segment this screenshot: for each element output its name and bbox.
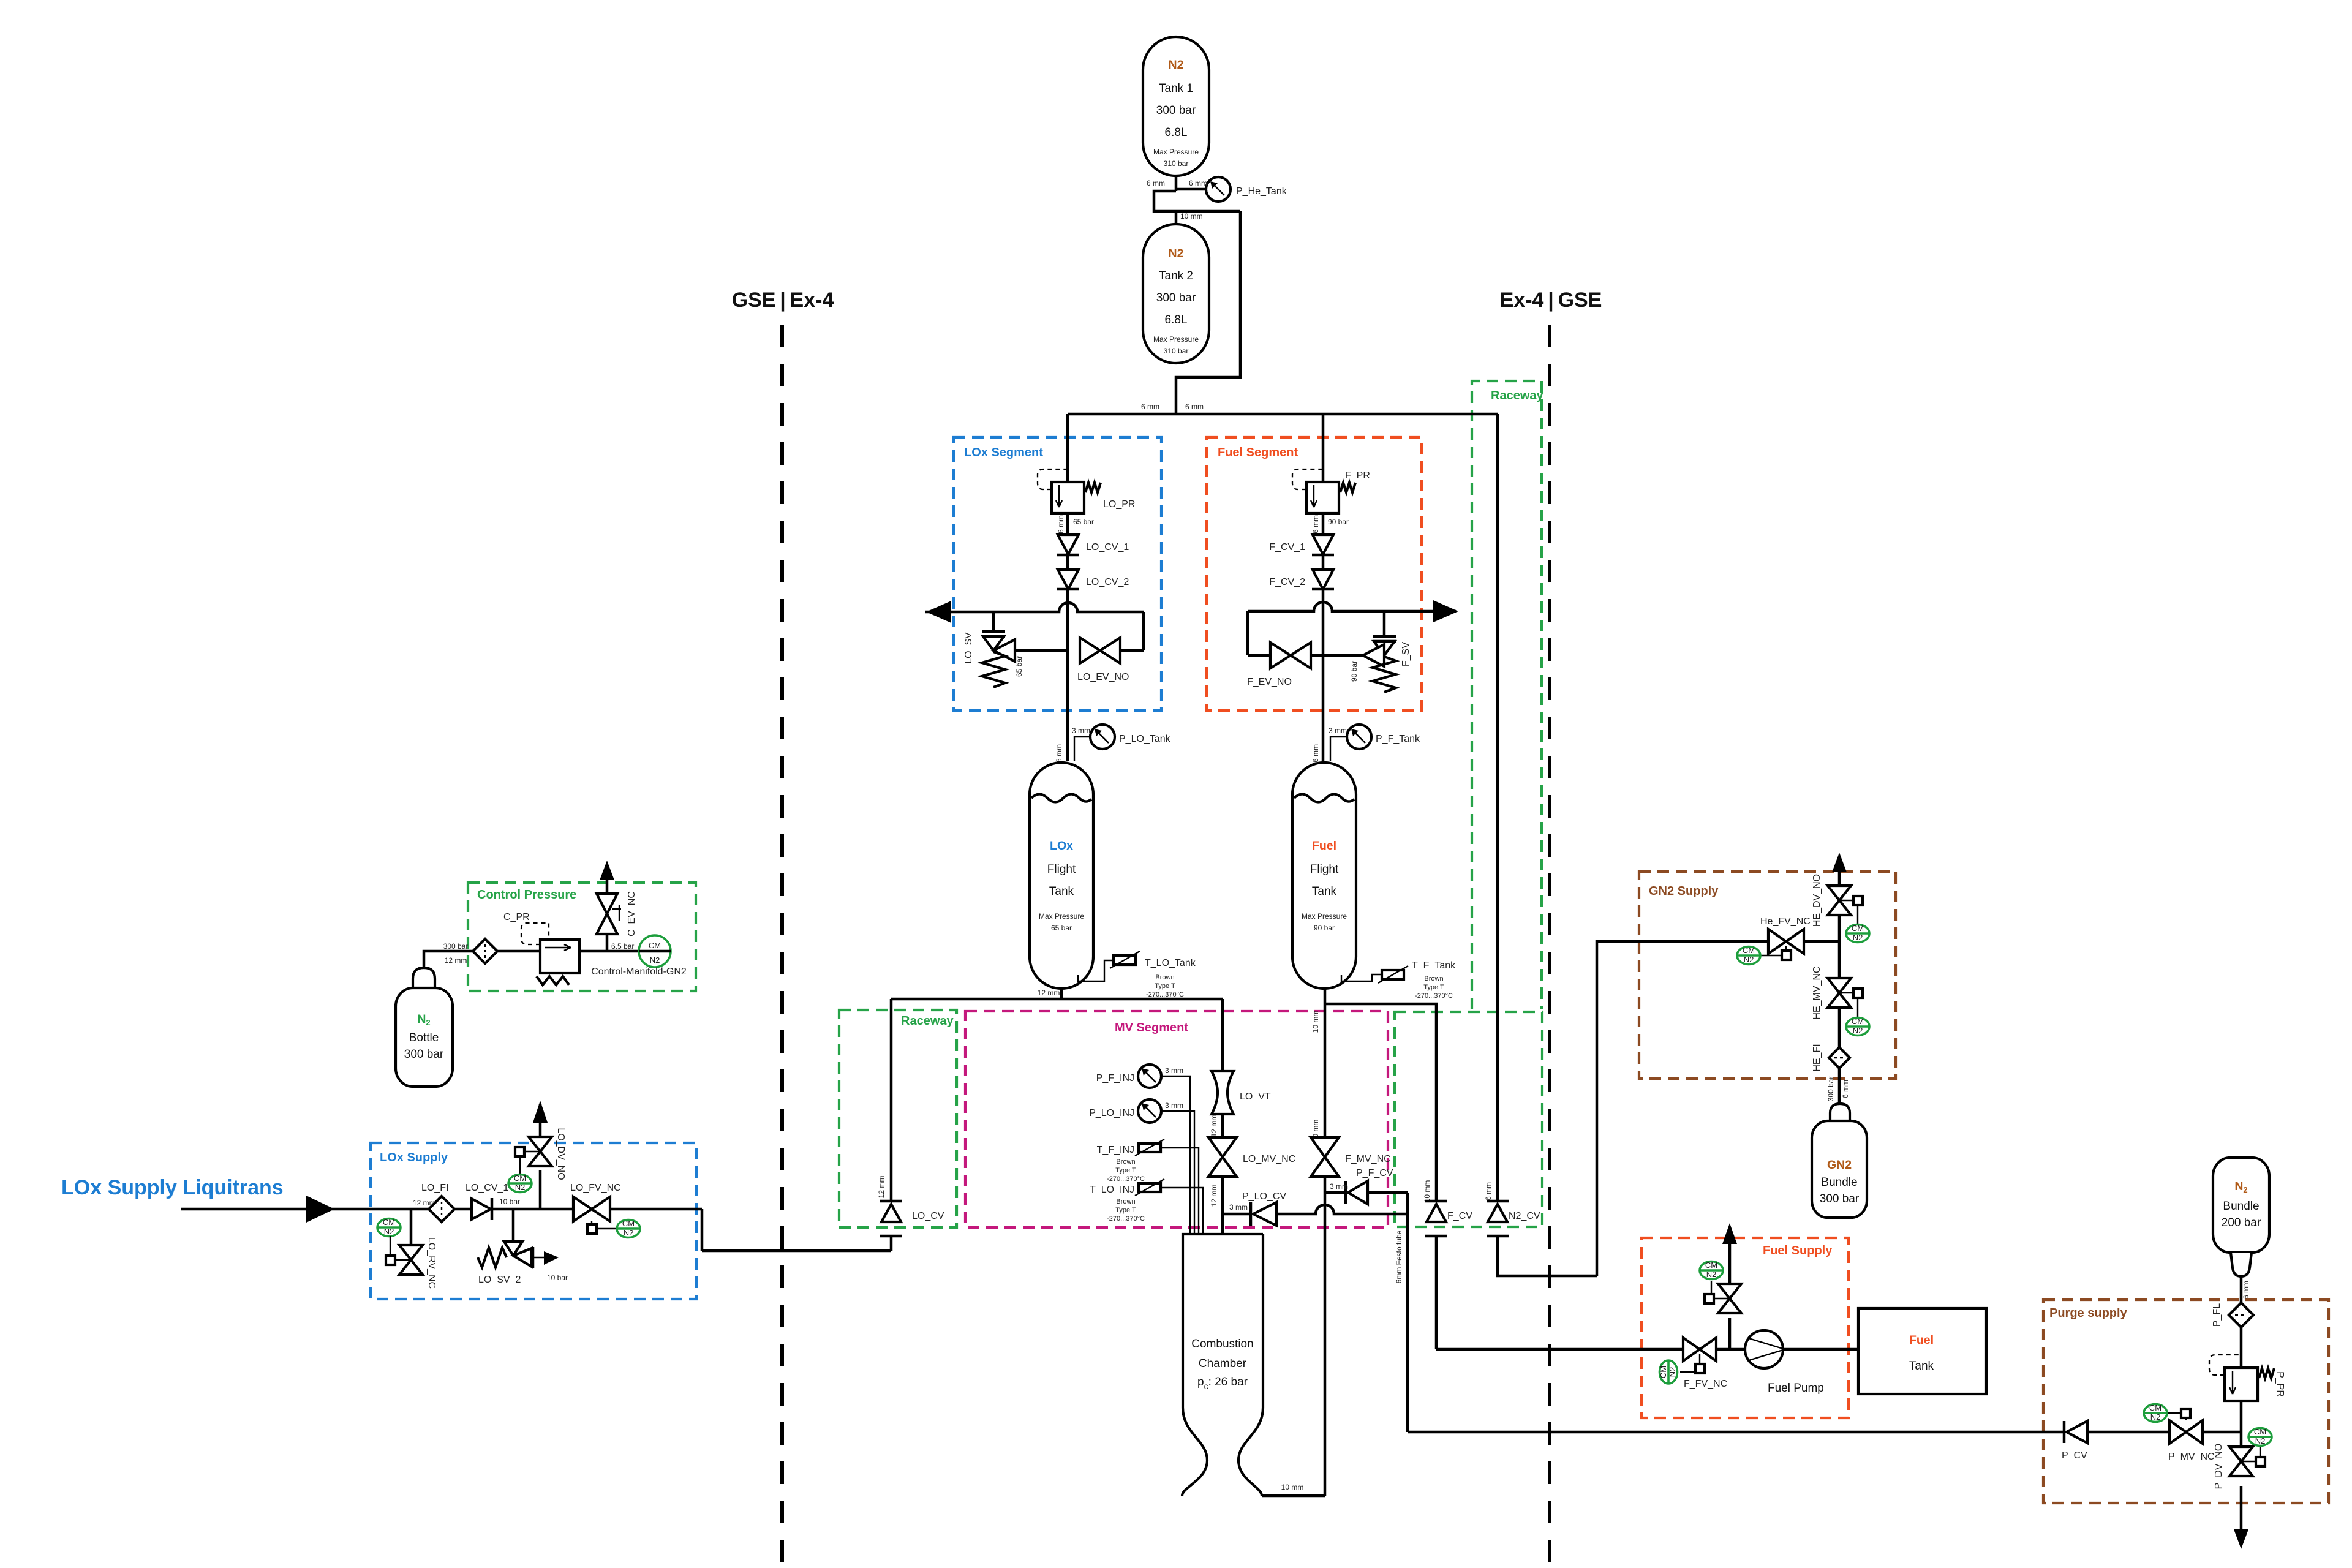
svg-text:T_F_Tank: T_F_Tank [1412,960,1456,971]
valve He_FV_NC [1760,916,1811,960]
svg-text:3 mm: 3 mm [1072,726,1090,735]
svg-text:LO_FV_NC: LO_FV_NC [570,1183,621,1193]
check valve F_CV [1425,1201,1472,1236]
svg-text:310 bar: 310 bar [1164,347,1189,355]
svg-text:Type T: Type T [1115,1207,1136,1214]
svg-text:P_FL: P_FL [2212,1303,2222,1327]
svg-text:Bottle: Bottle [409,1031,439,1044]
svg-text:Tank 1: Tank 1 [1159,82,1193,95]
wire: LO_MV_NC to chamber [1221,1177,1224,1234]
svg-text:N2: N2 [1668,1367,1677,1378]
svg-text:He_FV_NC: He_FV_NC [1760,916,1811,927]
instrument CM/N2 at P_MV_NC [2144,1403,2167,1422]
box Fuel Tank [1858,1308,1986,1394]
svg-text:Ex-4 | GSE: Ex-4 | GSE [1500,288,1602,312]
vent arrow LOx left [926,601,951,623]
svg-text:LO_CV_2: LO_CV_2 [1086,577,1129,587]
svg-text:N2: N2 [1169,247,1184,260]
svg-text:Brown: Brown [1116,1198,1135,1205]
svg-text:-270...370°C: -270...370°C [1415,992,1453,1000]
svg-text:65 bar: 65 bar [1015,656,1023,677]
relief valve LO_SV_2 [478,1209,568,1285]
svg-text:Tank: Tank [1049,885,1074,898]
svg-text:LO_CV_1: LO_CV_1 [466,1183,508,1193]
tank N2 Tank 1 [1143,37,1209,176]
svg-text:Flight: Flight [1310,863,1339,876]
valve He_DV_NO [1812,874,1863,927]
svg-text:N2: N2 [384,1227,394,1236]
svg-text:Max Pressure: Max Pressure [1153,335,1199,344]
svg-text:LOx Segment: LOx Segment [964,446,1043,459]
svg-text:6 mm: 6 mm [2242,1281,2250,1299]
svg-text:P_F_INJ: P_F_INJ [1096,1073,1134,1084]
svg-text:Tank: Tank [1909,1360,1934,1373]
svg-text:Fuel: Fuel [1312,839,1336,853]
svg-text:10 mm: 10 mm [1180,212,1203,221]
wire: He vertical line [1826,870,1850,1104]
instrument CM/N2 control manifold [591,935,687,977]
tank N2 Bundle 200 bar [2213,1158,2269,1276]
valve LO_RV_NC [386,1199,437,1289]
vent arrow P_DV_NO down [2234,1529,2248,1549]
svg-text:90 bar: 90 bar [1350,661,1359,682]
svg-text:10 mm: 10 mm [1423,1180,1431,1203]
svg-text:10 mm: 10 mm [1281,1483,1304,1491]
svg-text:3 mm: 3 mm [1165,1101,1183,1110]
tank Fuel Flight Tank [1292,763,1356,989]
svg-text:LO_MV_NC: LO_MV_NC [1243,1154,1295,1164]
svg-text:CM: CM [1705,1261,1717,1270]
svg-text:-270...370°C: -270...370°C [1107,1175,1145,1183]
svg-text:GN2 Supply: GN2 Supply [1649,884,1719,898]
svg-text:Fuel: Fuel [1909,1333,1934,1347]
wire: LO_VT to LO_MV_NC [1221,1114,1224,1137]
regulator C_PR [503,912,579,985]
relief valve F_SV [1350,636,1411,692]
instrument CM/N2 at LO_FV_NC [617,1219,640,1238]
svg-text:6.8L: 6.8L [1165,314,1188,326]
filter control inlet [473,939,497,963]
wire: LOx supply main line [181,1208,702,1211]
instrument CM/N2 at F_FV_NC [1659,1360,1678,1384]
svg-text:N2: N2 [1853,1026,1863,1035]
svg-text:P_DV_NO: P_DV_NO [2214,1444,2224,1490]
valve F_EV_NO [1247,643,1311,687]
svg-text:10 bar: 10 bar [547,1273,568,1282]
svg-text:6 mm: 6 mm [1189,179,1207,187]
svg-text:LO_VT: LO_VT [1240,1091,1271,1102]
valve HE_MV_NC [1812,966,1863,1019]
wire: 6mm Festo tube purge riser [1395,1193,2063,1432]
svg-text:F_CV_2: F_CV_2 [1269,577,1305,587]
venturi LO_VT [1210,1071,1271,1137]
svg-text:N2_CV: N2_CV [1509,1211,1540,1221]
relief valve LO_SV [963,631,1023,687]
regulator F_PR [1292,469,1370,533]
vent arrow Fuel right [1433,600,1458,622]
Control Pressure dashed box [468,883,696,991]
svg-text:N2: N2 [1169,58,1184,72]
instrument CM/N2 at LO_RV_NC [377,1218,401,1256]
svg-text:300 bar: 300 bar [404,1048,444,1061]
pressure gauge P_He_Tank [1147,177,1287,221]
svg-text:6 mm: 6 mm [1311,744,1320,763]
svg-text:10 bar: 10 bar [499,1197,520,1206]
Purge supply dashed box [2043,1300,2329,1503]
LOx Supply dashed box [371,1143,696,1299]
svg-text:Max Pressure: Max Pressure [1153,148,1199,156]
svg-text:Brown: Brown [1155,974,1174,981]
svg-text:Max Pressure: Max Pressure [1039,912,1084,921]
svg-text:N2: N2 [624,1228,634,1237]
instrument CM/N2 at LO_DV_NO [508,1156,532,1193]
Raceway dashed box upper right [1472,381,1543,1009]
svg-text:LO_DV_NO: LO_DV_NO [556,1128,566,1180]
svg-text:-270...370°C: -270...370°C [1107,1215,1145,1223]
GSE|Ex-4 separator line left [732,288,834,1568]
svg-text:P_LO_Tank: P_LO_Tank [1119,734,1171,744]
svg-text:90 bar: 90 bar [1314,924,1335,932]
valve P_DV_NO [2214,1444,2265,1490]
Ex-4|GSE separator line right [1500,288,1602,1568]
svg-text:6 mm: 6 mm [1147,179,1165,187]
valve fuel supply dump [1705,1281,1741,1313]
svg-text:300 bar: 300 bar [1156,292,1196,304]
check valve LO_CV [880,1201,944,1236]
wire: purge riser [2241,1276,2250,1531]
vent arrow C_EV_NC [600,861,614,880]
Fuel Segment dashed box [1207,437,1422,710]
svg-text:Chamber: Chamber [1199,1357,1247,1370]
svg-text:MV Segment: MV Segment [1115,1021,1188,1035]
thermocouple T_F_Tank [1341,960,1456,1000]
svg-text:P_MV_NC: P_MV_NC [2168,1452,2215,1462]
svg-text:P_PR: P_PR [2275,1371,2285,1397]
svg-text:6 mm: 6 mm [1311,515,1320,533]
svg-text:T_LO_Tank: T_LO_Tank [1145,958,1196,968]
svg-text:LO_CV_1: LO_CV_1 [1086,542,1129,552]
svg-text:F_PR: F_PR [1345,470,1370,481]
svg-text:Tank: Tank [1312,885,1337,898]
svg-text:12 mm: 12 mm [1210,1115,1218,1137]
tank LOx Flight Tank [1030,763,1093,989]
wire: tank1 to tank2 jog and gauge tap [1154,176,1240,414]
svg-text:Bundle: Bundle [2223,1200,2259,1213]
svg-text:P_F_CV: P_F_CV [1356,1168,1393,1178]
svg-text:C_PR: C_PR [503,912,530,922]
pressure gauge P_LO_Tank [1055,725,1171,763]
Raceway dashed box left [839,1010,957,1227]
svg-text:LO_EV_NO: LO_EV_NO [1077,672,1129,682]
svg-text:Type T: Type T [1115,1167,1136,1174]
svg-text:Combustion: Combustion [1191,1338,1253,1351]
check valve F_CV_2 [1269,570,1334,589]
check valve P_LO_CV with hop over fuel line [1223,1191,1408,1226]
vent arrow LO_DV_NO [533,1101,548,1123]
svg-text:3 mm: 3 mm [1329,726,1347,735]
regulator P_PR [2209,1355,2285,1401]
valve LO_EV_NO [1077,638,1129,682]
svg-text:Control Pressure: Control Pressure [477,888,576,902]
svg-text:Bundle: Bundle [1821,1176,1857,1189]
svg-text:N2: N2 [2255,1436,2266,1445]
instrument CM/N2 at He_FV_NC [1737,946,1760,965]
instrument CM/N2 at He_DV_NO [1846,905,1869,943]
valve LO_DV_NO [515,1104,566,1209]
wire: LO_PR to LOx tank main line [1066,513,1069,761]
thermocouple T_F_INJ [1097,1139,1199,1234]
svg-text:Fuel Supply: Fuel Supply [1763,1244,1833,1257]
valve LO_FV_NC [570,1183,621,1234]
svg-text:CM: CM [514,1174,526,1183]
svg-text:N2: N2 [1853,933,1863,942]
check valve LO_CV_2 [1057,570,1129,589]
svg-text:Fuel Pump: Fuel Pump [1768,1382,1824,1395]
wire: fuel tank outlet down to engine cooling inlet [1262,989,1325,1496]
svg-text:Raceway: Raceway [1491,389,1543,402]
svg-text:F_SV: F_SV [1401,642,1411,666]
svg-text:LO_PR: LO_PR [1103,499,1135,510]
svg-text:3 mm: 3 mm [1229,1203,1248,1212]
svg-text:6 mm: 6 mm [1055,744,1063,763]
svg-text:P_He_Tank: P_He_Tank [1236,186,1287,197]
svg-text:CM: CM [2254,1427,2266,1436]
pressure gauge P_F_Tank [1311,725,1420,763]
svg-text:Brown: Brown [1424,975,1443,982]
bottle N2 300 bar [396,968,453,1087]
valve F_FV_NC [1680,1338,1727,1389]
svg-text:300 bar: 300 bar [443,942,469,951]
svg-text:300 bar: 300 bar [1826,1077,1835,1102]
svg-text:Control-Manifold-GN2: Control-Manifold-GN2 [591,967,687,977]
filter HE_FI [1812,1044,1850,1071]
svg-text:F_CV_1: F_CV_1 [1269,542,1305,552]
svg-text:Flight: Flight [1047,863,1076,876]
valve P_MV_NC [2167,1409,2241,1462]
svg-text:200 bar: 200 bar [2222,1216,2261,1229]
check valve N2_CV [1484,1182,1597,1276]
check valve LO_CV_1 supply [466,1183,520,1220]
svg-text:310 bar: 310 bar [1164,159,1189,168]
svg-text:P_CV: P_CV [2062,1450,2087,1461]
valve C_EV_NC [597,867,637,951]
wire: F_PR to Fuel tank main line [1322,513,1325,761]
svg-text:LOx Supply: LOx Supply [380,1151,448,1164]
svg-text:F_FV_NC: F_FV_NC [1684,1379,1727,1389]
svg-text:LOx Supply Liquitrans: LOx Supply Liquitrans [61,1176,284,1199]
Fuel Supply dashed box [1642,1238,1849,1418]
flow arrow supply inlet [306,1196,334,1223]
svg-text:LO_RV_NC: LO_RV_NC [426,1237,437,1289]
svg-text:HE_MV_NC: HE_MV_NC [1812,966,1822,1019]
svg-text:Raceway: Raceway [901,1014,954,1028]
svg-text:CM: CM [1852,1017,1864,1026]
svg-text:F_MV_NC: F_MV_NC [1345,1154,1391,1164]
svg-text:6 mm: 6 mm [1841,1080,1850,1098]
svg-text:Purge supply: Purge supply [2049,1306,2128,1320]
svg-text:12 mm: 12 mm [1038,989,1060,997]
valve LO_MV_NC [1208,1137,1295,1207]
svg-text:GSE | Ex-4: GSE | Ex-4 [732,288,834,312]
wire: fuel supply vent branch [1728,1233,1732,1349]
svg-text:Tank 2: Tank 2 [1159,269,1193,282]
svg-text:LO_SV_2: LO_SV_2 [478,1275,521,1285]
svg-text:6 mm: 6 mm [1484,1182,1493,1200]
thermocouple T_LO_INJ [1090,1179,1203,1234]
GN2 Supply dashed box [1639,872,1896,1079]
svg-text:CM: CM [383,1218,395,1227]
svg-text:T_F_INJ: T_F_INJ [1097,1145,1134,1155]
svg-text:N2: N2 [515,1183,526,1192]
svg-text:3 mm: 3 mm [1165,1066,1183,1075]
wire: Fuel vent line with hop [1248,602,1456,655]
tank GN2 Bundle 300 bar [1812,1104,1867,1218]
valve F_MV_NC [1311,1137,1391,1177]
pump Fuel Pump [1716,1330,1858,1395]
svg-text:Brown: Brown [1116,1158,1135,1166]
vent arrow He_DV_NO [1832,853,1847,872]
svg-text:6.5 bar: 6.5 bar [611,942,634,951]
svg-text:90 bar: 90 bar [1328,518,1349,526]
svg-text:Type T: Type T [1155,982,1175,990]
filter P_FL [2212,1303,2253,1327]
tank N2 Tank 2 [1143,224,1209,363]
LOx Segment dashed box [954,437,1161,710]
check valve LO_CV_1 [1057,535,1129,555]
wire: LOx fill riser through LO_CV [702,999,891,1251]
svg-text:6.8L: 6.8L [1165,126,1188,139]
svg-text:6 mm: 6 mm [1185,402,1204,411]
pressure gauge P_LO_INJ [1089,1099,1194,1234]
pressure gauge P_F_INJ [1096,1065,1190,1234]
filter LO_FI [421,1183,454,1222]
instrument CM/N2 at P_DV_NO [2248,1427,2272,1457]
svg-text:-270...370°C: -270...370°C [1146,991,1184,998]
svg-text:10 mm: 10 mm [1311,1011,1320,1033]
svg-text:HE_FI: HE_FI [1812,1044,1822,1071]
svg-text:CM: CM [1852,924,1864,933]
Raceway dashed box right lower [1395,1012,1542,1227]
svg-text:CM: CM [622,1219,635,1228]
svg-text:65 bar: 65 bar [1051,924,1072,932]
check valve P_F_CV [1325,1168,1408,1204]
svg-text:CM: CM [1743,946,1755,955]
svg-text:N2: N2 [1744,955,1754,964]
svg-text:F_EV_NO: F_EV_NO [1247,677,1292,687]
svg-text:T_LO_INJ: T_LO_INJ [1090,1185,1134,1195]
svg-text:300 bar: 300 bar [1156,104,1196,117]
svg-text:C_EV_NC: C_EV_NC [627,891,637,937]
svg-text:LO_CV: LO_CV [912,1211,944,1221]
svg-text:Max Pressure: Max Pressure [1302,912,1347,921]
instrument CM/N2 at fuel supply dump [1700,1261,1723,1280]
svg-text:Fuel Segment: Fuel Segment [1218,446,1298,459]
check valve P_CV [2062,1421,2169,1461]
check valve F_CV_1 [1269,535,1334,555]
svg-text:GN2: GN2 [1827,1158,1852,1172]
svg-text:3 mm: 3 mm [1330,1182,1348,1191]
regulator LO_PR [1038,469,1135,533]
instrument CM/N2 at HE_MV_NC [1846,998,1869,1036]
svg-text:N2: N2 [650,956,660,965]
svg-text:P_F_Tank: P_F_Tank [1376,734,1420,744]
svg-text:P_LO_INJ: P_LO_INJ [1089,1108,1134,1118]
label LOx Supply Liquitrans [61,1176,284,1199]
svg-text:LO_FI: LO_FI [421,1183,448,1193]
svg-text:300 bar: 300 bar [1820,1193,1860,1205]
svg-text:12 mm: 12 mm [445,956,467,965]
thermocouple T_LO_Tank [1078,951,1196,998]
svg-text:12 mm: 12 mm [877,1176,886,1199]
svg-text:LOx: LOx [1050,839,1073,853]
wire: header 6mm manifold [1068,402,1498,1200]
svg-text:LO_SV: LO_SV [963,632,974,664]
vent arrow fuel supply [1722,1223,1737,1244]
wire: LOx tank outlet 12mm line [891,989,1223,1071]
MV Segment dashed box [965,1011,1388,1227]
svg-text:CM: CM [2149,1403,2162,1412]
svg-text:P_LO_CV: P_LO_CV [1242,1191,1286,1202]
svg-text:F_CV: F_CV [1447,1211,1472,1221]
wire: LOx vent line with hop [925,603,1144,650]
svg-text:HE_DV_NO: HE_DV_NO [1812,874,1822,927]
svg-text:12 mm: 12 mm [1210,1185,1218,1207]
svg-text:6mm Festo tube: 6mm Festo tube [1395,1230,1403,1283]
svg-text:N2: N2 [2150,1412,2161,1422]
svg-text:6 mm: 6 mm [1057,515,1065,533]
svg-text:CM: CM [649,941,661,950]
svg-text:N2: N2 [1706,1270,1717,1279]
wire: fuel fill branch to F_CV riser [1325,1004,1683,1349]
wire: bottle to control regulator [424,942,671,968]
wire: GN2 line from N2_CV to He branch [1597,941,1839,1276]
svg-text:CM: CM [1659,1366,1668,1378]
svg-text:Type T: Type T [1423,984,1444,991]
svg-text:65 bar: 65 bar [1073,518,1094,526]
svg-text:6 mm: 6 mm [1141,402,1159,411]
combustion chamber and nozzle [1182,1234,1263,1496]
